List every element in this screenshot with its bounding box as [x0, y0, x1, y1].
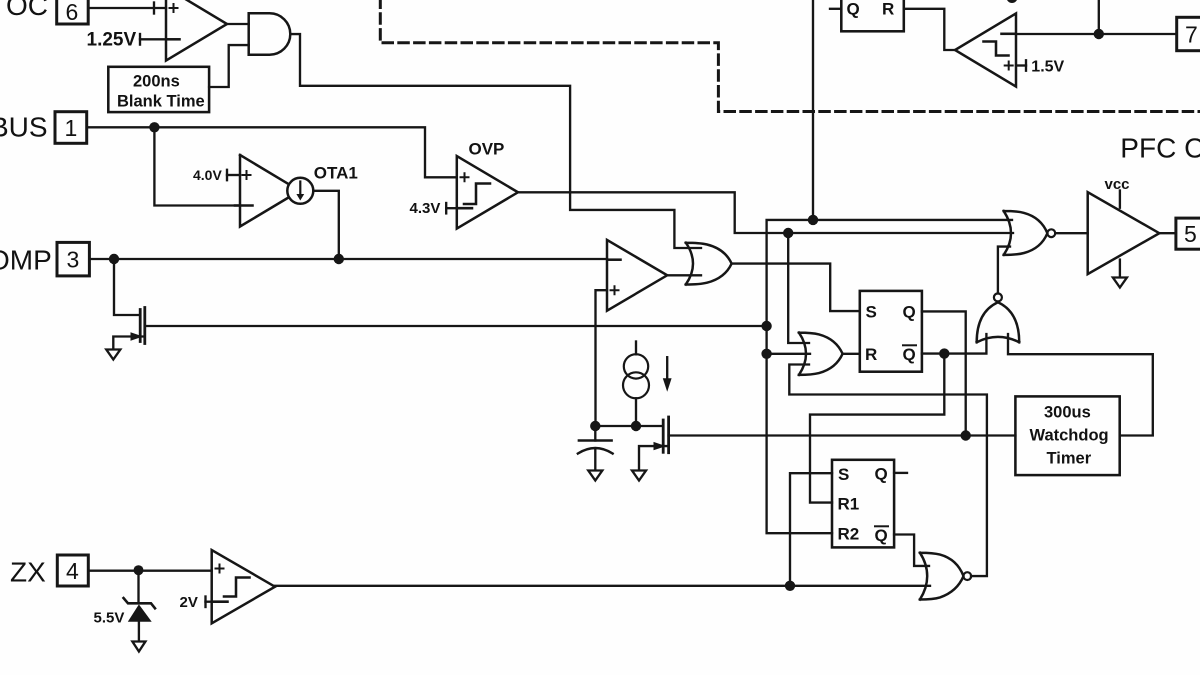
- U4 minus bar: [1002, 33, 1015, 36]
- svg-text:Q: Q: [847, 0, 860, 19]
- FF0 Q output stub: [830, 8, 841, 10]
- U4 plus sign: [1005, 62, 1013, 70]
- wire 4.3V to OVP - input: [446, 207, 457, 209]
- junction dot current source at gate node: [631, 421, 641, 431]
- svg-text:S: S: [838, 465, 849, 484]
- OTA1 minus bar: [235, 204, 253, 207]
- U1 minus bar: [167, 38, 179, 41]
- svg-text:OMP: OMP: [0, 244, 52, 275]
- wire 1.25V to U1 - input: [140, 38, 166, 40]
- U4 hysteresis symbol: [984, 42, 1009, 56]
- svg-text:Q: Q: [875, 465, 888, 484]
- Q2 source arrow: [654, 442, 667, 450]
- svg-text:PFC C: PFC C: [1120, 133, 1200, 164]
- svg-text:200ns: 200ns: [133, 73, 180, 91]
- AND gate A1: [249, 13, 291, 54]
- ground Q1 source: [106, 350, 120, 360]
- comparator U5 (ZX, 2V): [212, 550, 275, 623]
- dashed IC boundary: [380, 0, 1200, 112]
- 4.0V reference tick: [226, 170, 228, 180]
- OR gate OR1: [686, 243, 732, 285]
- transistor Q1 channel bar: [143, 308, 146, 344]
- OTA1 current source circle: [287, 178, 313, 204]
- NOR2 output bubble: [963, 572, 971, 580]
- wire vertical bus (NOR1 in / drain / OR2 / FF2 R2): [767, 220, 1012, 533]
- pin 5 box: [1176, 218, 1200, 249]
- pin 4 box: [57, 555, 88, 586]
- wire Q1 drain line to vertical bus: [145, 325, 767, 327]
- wire AND output to OR1 top input: [292, 34, 702, 248]
- OTA1 arrow inside circle: [299, 182, 301, 196]
- svg-text:4: 4: [66, 558, 79, 584]
- wire gate node line (cap to Q2 gate): [595, 425, 663, 427]
- 1.25V reference tick: [139, 34, 141, 45]
- wire NOR1 output to driver: [1055, 232, 1088, 234]
- FF2 Qbar overbar: [875, 525, 888, 527]
- svg-text:2V: 2V: [180, 594, 198, 611]
- wire ZX line branch up to FF2 S input: [790, 473, 832, 586]
- svg-text:5: 5: [1184, 221, 1197, 247]
- junction dot ZX node: [134, 565, 144, 575]
- wire pin6 to comparator U1 + input: [88, 7, 166, 9]
- U1 plus sign: [170, 4, 178, 12]
- junction dot OVP line to OR2 branch: [783, 228, 793, 238]
- U2 minus bar: [609, 258, 621, 261]
- wire 4.0V to OTA1 + input: [227, 174, 240, 176]
- Q1 source wire: [113, 337, 144, 350]
- svg-text:OTA1: OTA1: [314, 164, 358, 183]
- OVP minus bar: [458, 207, 472, 210]
- OTA1 amplifier triangle: [240, 155, 289, 227]
- svg-text:Q: Q: [875, 526, 888, 545]
- junction dot FF1 Qbar branch: [939, 348, 949, 358]
- wire 1.5V to U4 + input: [1016, 64, 1026, 66]
- transistor Q2 gate bar: [662, 420, 665, 452]
- wire FF1 Q output down to watchdog line: [922, 311, 966, 435]
- junction dot pin3 at OTA1 output: [334, 254, 344, 264]
- junction dot cap node: [590, 421, 600, 431]
- svg-text:R: R: [865, 345, 877, 364]
- comparator U1 (overcurrent, 1.25V): [166, 0, 227, 61]
- 1.5V reference tick: [1025, 60, 1027, 70]
- wire OVP line branch down to OR2 top input: [788, 233, 809, 343]
- ground driver: [1113, 278, 1127, 288]
- wire U4 - input to pin 7: [1016, 33, 1177, 35]
- OVP plus sign: [461, 173, 469, 181]
- svg-text:R2: R2: [838, 525, 860, 544]
- svg-text:Timer: Timer: [1047, 450, 1092, 468]
- NOR gate NOR1 body: [1004, 211, 1048, 255]
- capacitor C1 top plate: [579, 439, 612, 442]
- svg-text:1.5V: 1.5V: [1031, 58, 1064, 75]
- junction dot BUS node: [149, 122, 159, 132]
- U5 hysteresis symbol: [224, 578, 250, 597]
- Q2 source wire: [639, 446, 667, 470]
- wire U2 output to OR1 lower input: [667, 274, 701, 276]
- junction dot vertical bus at OR2 input: [761, 349, 771, 359]
- wire pin3 node down to Q1 gate: [114, 259, 139, 315]
- wire 200ns box to AND lower input: [209, 45, 249, 87]
- wire watchdog output to NOR3 right input: [1008, 334, 1153, 436]
- svg-text:7: 7: [1185, 22, 1198, 48]
- 2V reference tick: [204, 597, 206, 608]
- latch FF2 box: [832, 460, 894, 548]
- wire comparator U4 output to FF0 R input: [904, 9, 955, 50]
- zener D1 triangle (pointing up): [128, 604, 152, 621]
- wire BUS node down to OTA1 - input: [154, 127, 240, 205]
- wire U5 output to NOR2 lower input: [275, 585, 930, 587]
- watchdog timer box: [1015, 396, 1119, 475]
- driver VCC stub: [1119, 191, 1121, 208]
- zener D1 lead from ZX node: [137, 570, 139, 603]
- svg-text:Watchdog: Watchdog: [1030, 427, 1109, 445]
- svg-text:vcc: vcc: [1105, 176, 1130, 193]
- wire OR2 output to FF1 R input: [843, 353, 860, 355]
- svg-text:OC: OC: [6, 0, 48, 21]
- svg-text:4.0V: 4.0V: [193, 167, 222, 183]
- wire FF1 Qbar output to NOR3 left input: [922, 334, 987, 354]
- comparator U4 (restart, 1.5V, left-pointing): [955, 13, 1016, 86]
- svg-text:R: R: [882, 0, 894, 19]
- OVP hysteresis symbol: [464, 184, 490, 205]
- comparator OVP: [457, 156, 518, 229]
- svg-text:OVP: OVP: [469, 139, 505, 158]
- ground capacitor C1: [588, 471, 602, 481]
- wire top vertical from crop edge: [812, 0, 814, 220]
- current source I1 top stub: [635, 342, 637, 355]
- wire cap node up to U2 + input: [596, 290, 608, 426]
- svg-text:Q: Q: [903, 345, 916, 364]
- wire pin4 to comparator U5 + input: [88, 570, 211, 572]
- pin 7 box: [1177, 17, 1200, 50]
- 200ns blank time box: [108, 67, 209, 112]
- zener D1 anode lead: [138, 620, 140, 641]
- comparator U2 (PWM): [607, 240, 667, 311]
- current source I1 circles: [624, 354, 648, 378]
- NOR gate NOR3 (vertical) body: [977, 302, 1020, 342]
- wire Q2 drain line to watchdog timer: [669, 434, 1016, 436]
- NOR1 output bubble: [1047, 229, 1055, 237]
- svg-text:300us: 300us: [1044, 404, 1091, 422]
- NOR3 output bubble: [994, 293, 1002, 301]
- pin 3 box: [57, 242, 89, 276]
- svg-text:BUS: BUS: [0, 112, 48, 143]
- wire pin3 COMP line to U2 - input: [89, 258, 607, 260]
- svg-text:5.5V: 5.5V: [94, 610, 125, 627]
- svg-text:3: 3: [67, 247, 80, 273]
- svg-text:ZX: ZX: [10, 557, 46, 588]
- wire OTA1 output down to pin3 line: [313, 191, 339, 259]
- partial glyph cut at crop top: [1007, 0, 1018, 3]
- junction dot FF1 Q at drain line: [961, 430, 971, 440]
- wire driver output to pin 5: [1159, 232, 1176, 234]
- driver U3 triangle: [1088, 192, 1160, 274]
- transistor Q1 gate bar: [139, 310, 142, 342]
- svg-text:R1: R1: [838, 495, 860, 514]
- latch FF0 box (cut at top): [841, 0, 904, 31]
- FF1 Qbar overbar: [903, 344, 916, 346]
- tick on pin6 wire: [153, 3, 155, 14]
- zener D1 cathode bar with bent ends: [124, 598, 156, 608]
- wire BUS line to OVP + input: [87, 127, 457, 177]
- svg-text:1.25V: 1.25V: [87, 30, 137, 51]
- transistor Q2 channel bar: [667, 417, 670, 453]
- capacitor C1 curved plate: [578, 448, 613, 454]
- OTA1 plus sign: [243, 171, 251, 179]
- wire OVP output to NOR1 middle input: [518, 192, 1013, 233]
- current source I1 output stub: [635, 398, 637, 426]
- wire FF2 Qbar to NOR2 top input: [894, 535, 929, 566]
- wire U1 output to AND gate: [227, 23, 249, 25]
- capacitor C1 lead: [594, 426, 596, 441]
- junction dot vertical bus at Q1 drain: [761, 321, 771, 331]
- pin 1 box: [55, 112, 87, 144]
- junction dot pin7 line: [1094, 29, 1104, 39]
- wire OR2 middle input from vertical bus: [767, 353, 810, 355]
- ground Q2 source: [632, 471, 646, 481]
- wire pin7 node up to crop edge: [1098, 0, 1100, 34]
- junction dot NOR1 input line: [808, 215, 818, 225]
- driver ground stub: [1119, 260, 1121, 277]
- NOR gate NOR2 body: [920, 553, 964, 600]
- 4.3V reference tick: [445, 203, 447, 213]
- OR gate OR2: [799, 333, 843, 375]
- Q1 source arrow: [131, 332, 144, 340]
- wire NOR3 output to NOR1 lower input: [998, 247, 1010, 294]
- capacitor C1 lower lead: [594, 449, 596, 470]
- wire 2V to U5 - input: [206, 601, 212, 603]
- svg-text:1: 1: [65, 115, 78, 141]
- pin 6 box: [57, 0, 88, 24]
- svg-text:4.3V: 4.3V: [410, 200, 441, 217]
- arrow beside current source: [666, 357, 668, 379]
- wire OR2 bottom input from NOR2 output: [789, 365, 987, 577]
- junction dot ZX line at FF2 S branch: [785, 581, 795, 591]
- latch FF1 box: [860, 291, 922, 372]
- U5 plus sign: [216, 565, 224, 573]
- junction dot pin3 at mosfet branch: [109, 254, 119, 264]
- U5 minus bar: [213, 600, 228, 603]
- svg-text:6: 6: [66, 0, 79, 25]
- wire OR1 output to latch FF1 S input: [732, 264, 860, 312]
- svg-text:Q: Q: [903, 302, 916, 321]
- svg-text:Blank Time: Blank Time: [117, 93, 205, 111]
- ground zener: [132, 642, 145, 652]
- wire FF1 Qbar branch to FF2 R1 input: [810, 354, 944, 503]
- FF2 Q output stub: [894, 472, 907, 474]
- U2 plus sign: [611, 286, 619, 294]
- svg-text:S: S: [866, 302, 877, 321]
